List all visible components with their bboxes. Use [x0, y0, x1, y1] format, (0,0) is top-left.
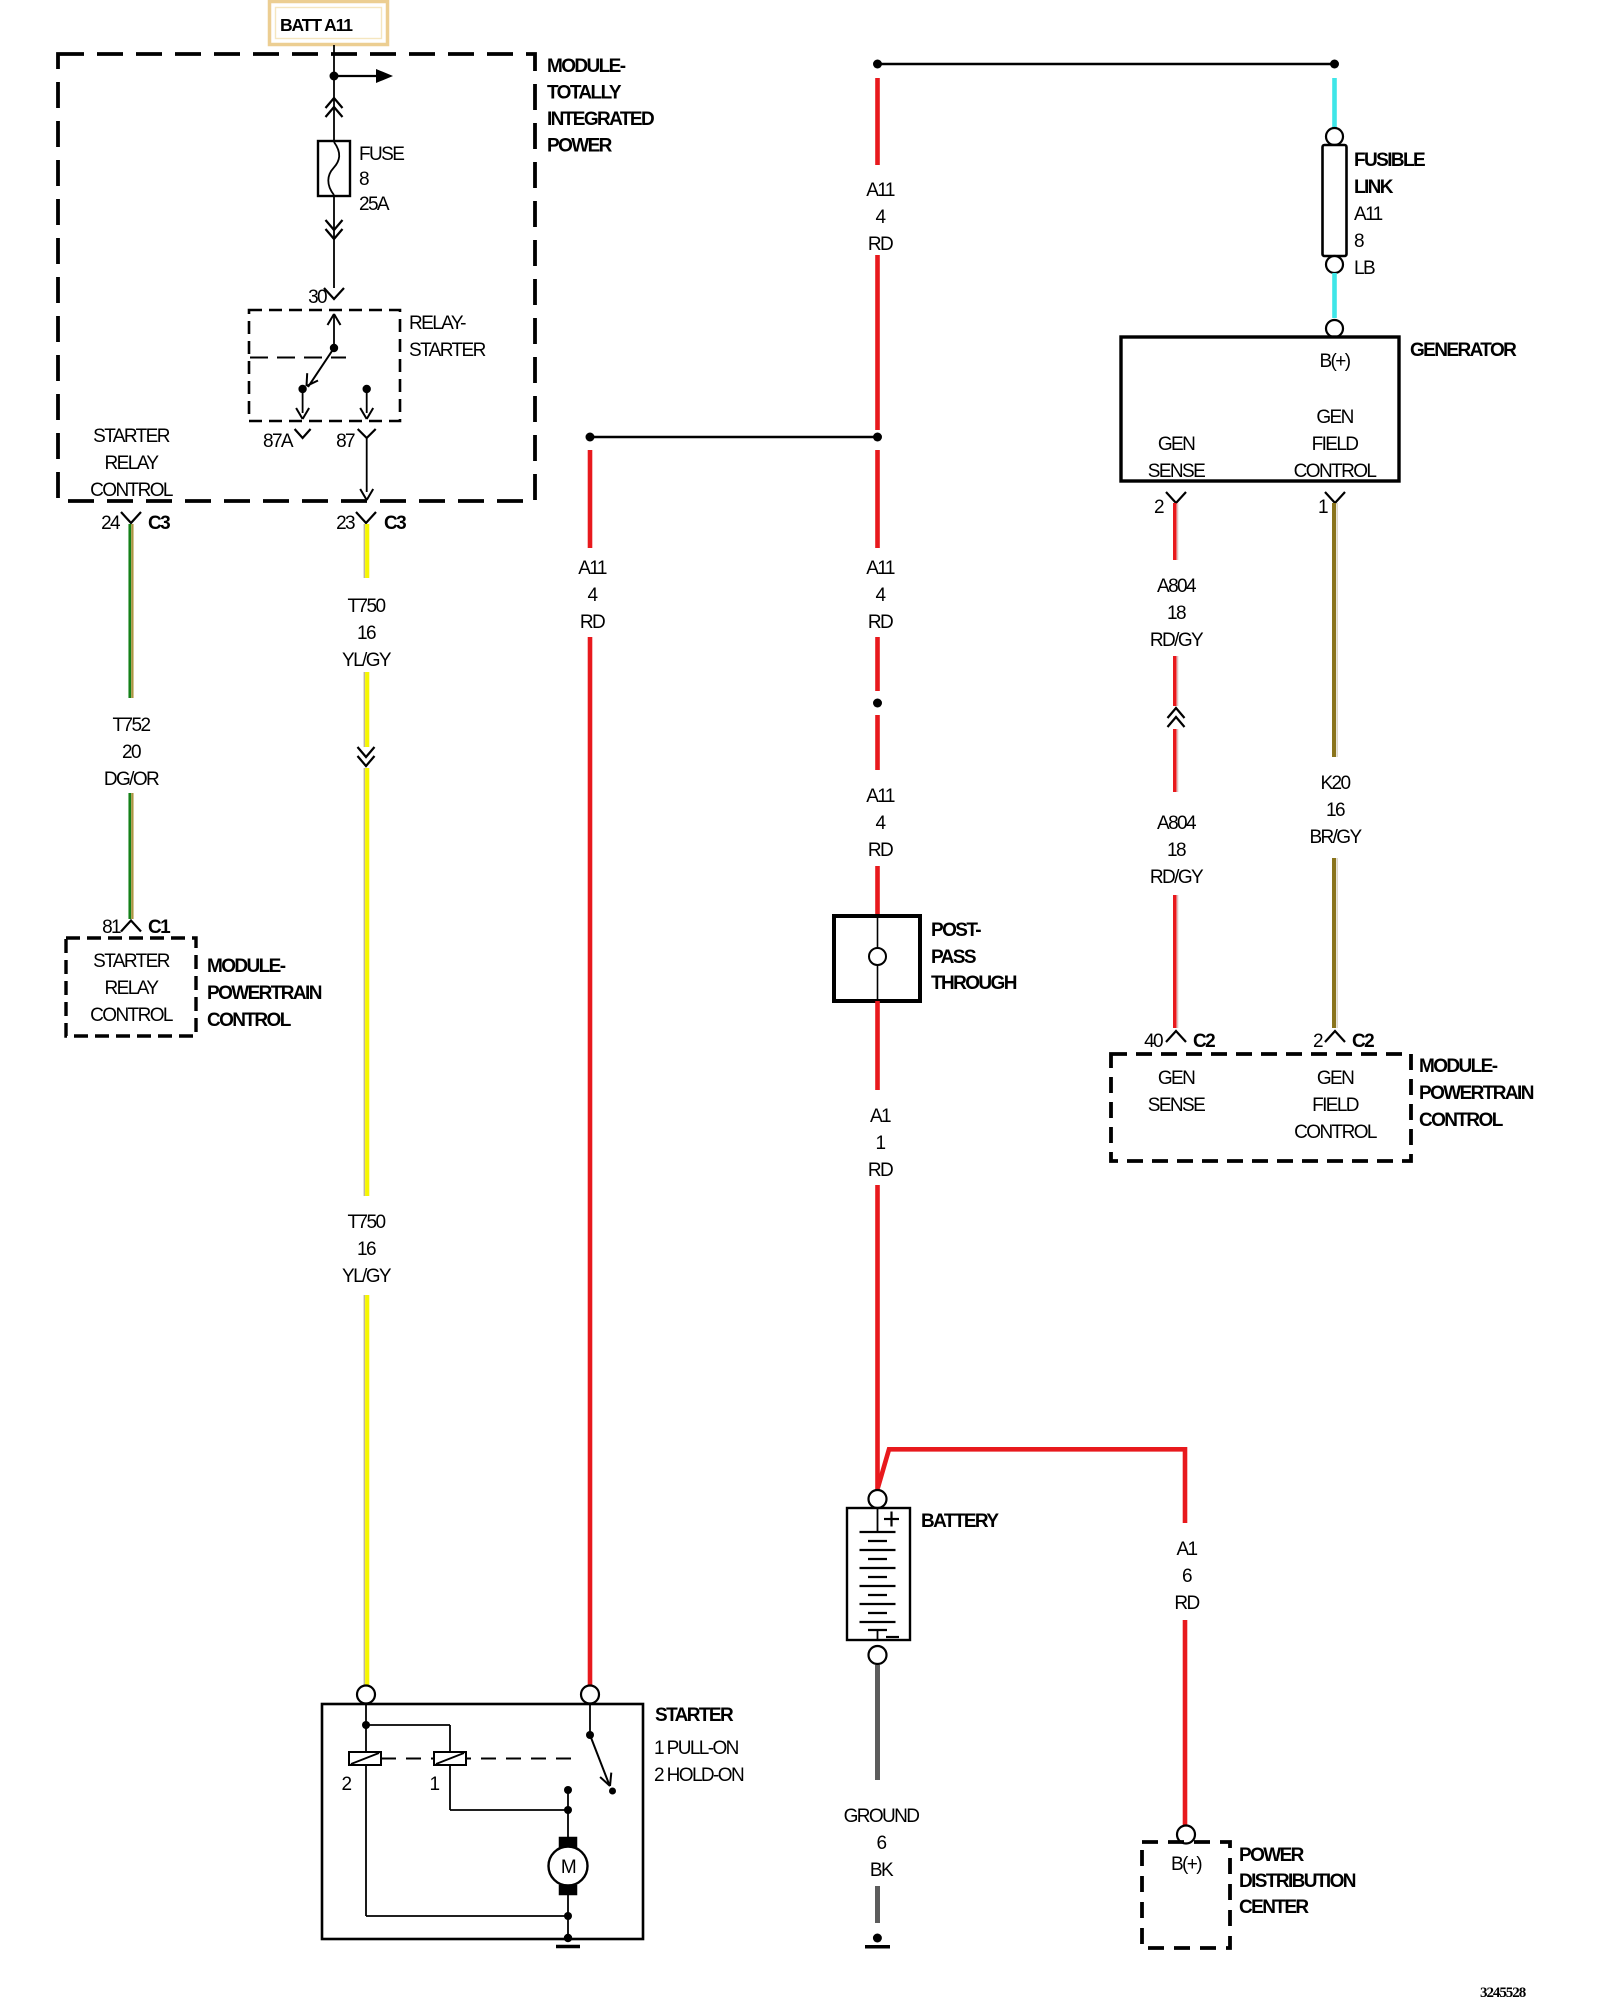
- svg-text:16: 16: [357, 623, 376, 644]
- svg-text:C1: C1: [148, 917, 171, 938]
- svg-text:A11: A11: [866, 558, 895, 579]
- svg-text:20: 20: [122, 742, 141, 763]
- svg-text:STARTER: STARTER: [93, 951, 170, 972]
- svg-text:24: 24: [101, 513, 121, 534]
- svg-text:1: 1: [430, 1774, 440, 1795]
- svg-text:2: 2: [342, 1774, 352, 1795]
- svg-text:YL/GY: YL/GY: [342, 1266, 392, 1287]
- svg-text:GEN: GEN: [1317, 1068, 1354, 1089]
- svg-text:1: 1: [876, 1133, 886, 1154]
- svg-text:C2: C2: [1193, 1031, 1215, 1052]
- svg-text:M: M: [561, 1857, 576, 1878]
- svg-text:RELAY: RELAY: [105, 453, 160, 474]
- svg-text:SENSE: SENSE: [1148, 1095, 1205, 1116]
- svg-text:A11: A11: [1354, 204, 1383, 225]
- svg-text:RD: RD: [868, 612, 893, 633]
- svg-text:RD: RD: [868, 234, 893, 255]
- svg-text:PASS: PASS: [931, 947, 976, 968]
- svg-text:TOTALLY: TOTALLY: [547, 83, 622, 104]
- svg-text:BATT A11: BATT A11: [280, 15, 353, 35]
- svg-text:GEN: GEN: [1316, 407, 1353, 428]
- svg-text:LINK: LINK: [1354, 177, 1394, 198]
- svg-text:YL/GY: YL/GY: [342, 650, 392, 671]
- svg-text:2 HOLD-ON: 2 HOLD-ON: [654, 1765, 744, 1786]
- svg-text:CONTROL: CONTROL: [90, 1005, 173, 1026]
- svg-text:FUSE: FUSE: [359, 144, 404, 165]
- svg-text:A11: A11: [866, 786, 895, 807]
- svg-text:BATTERY: BATTERY: [921, 1511, 999, 1532]
- svg-text:2: 2: [1313, 1031, 1323, 1052]
- svg-text:A804: A804: [1157, 813, 1197, 834]
- svg-text:8: 8: [1354, 231, 1364, 252]
- svg-text:STARTER: STARTER: [655, 1705, 734, 1726]
- svg-text:STARTER: STARTER: [409, 340, 486, 361]
- svg-text:FIELD: FIELD: [1312, 1095, 1359, 1116]
- svg-text:GEN: GEN: [1158, 434, 1195, 455]
- svg-text:DG/OR: DG/OR: [104, 769, 159, 790]
- svg-text:BK: BK: [870, 1860, 894, 1881]
- svg-text:2: 2: [1154, 497, 1164, 518]
- svg-text:GENERATOR: GENERATOR: [1410, 340, 1517, 361]
- svg-text:MODULE-: MODULE-: [547, 56, 626, 77]
- svg-text:FIELD: FIELD: [1312, 434, 1359, 455]
- svg-text:CONTROL: CONTROL: [1294, 1122, 1377, 1143]
- svg-text:30: 30: [308, 287, 327, 308]
- svg-text:A11: A11: [578, 558, 607, 579]
- svg-text:GEN: GEN: [1158, 1068, 1195, 1089]
- svg-text:A1: A1: [870, 1106, 891, 1127]
- svg-text:A1: A1: [1176, 1539, 1197, 1560]
- svg-text:8: 8: [359, 169, 369, 190]
- svg-text:6: 6: [877, 1833, 887, 1854]
- svg-text:CENTER: CENTER: [1239, 1897, 1309, 1918]
- svg-text:CONTROL: CONTROL: [1294, 461, 1377, 482]
- svg-text:B(+): B(+): [1171, 1854, 1202, 1875]
- svg-text:POST-: POST-: [931, 920, 981, 941]
- svg-text:T750: T750: [348, 596, 386, 617]
- svg-text:40: 40: [1144, 1031, 1163, 1052]
- svg-text:25A: 25A: [359, 194, 390, 215]
- svg-text:18: 18: [1167, 840, 1186, 861]
- svg-text:RD: RD: [580, 612, 605, 633]
- svg-text:16: 16: [1326, 800, 1345, 821]
- svg-text:A804: A804: [1157, 576, 1197, 597]
- svg-text:GROUND: GROUND: [844, 1806, 920, 1827]
- svg-text:POWERTRAIN: POWERTRAIN: [207, 983, 322, 1004]
- svg-text:B(+): B(+): [1319, 351, 1350, 372]
- svg-text:CONTROL: CONTROL: [207, 1010, 292, 1031]
- svg-text:MODULE-: MODULE-: [207, 956, 286, 977]
- svg-text:3245528: 3245528: [1480, 1985, 1526, 2000]
- svg-text:RD: RD: [868, 1160, 893, 1181]
- svg-text:RD: RD: [868, 840, 893, 861]
- svg-text:THROUGH: THROUGH: [931, 973, 1017, 994]
- svg-text:87: 87: [336, 431, 355, 452]
- svg-text:23: 23: [336, 513, 355, 534]
- svg-text:CONTROL: CONTROL: [90, 480, 173, 501]
- svg-text:RELAY: RELAY: [105, 978, 160, 999]
- svg-text:RELAY-: RELAY-: [409, 313, 466, 334]
- svg-text:16: 16: [357, 1239, 376, 1260]
- svg-text:RD: RD: [1174, 1593, 1199, 1614]
- svg-text:T750: T750: [348, 1212, 386, 1233]
- svg-text:T752: T752: [113, 715, 151, 736]
- svg-text:87A: 87A: [263, 431, 294, 452]
- svg-text:1: 1: [1318, 497, 1328, 518]
- svg-text:BR/GY: BR/GY: [1309, 827, 1362, 848]
- svg-text:INTEGRATED: INTEGRATED: [547, 109, 654, 130]
- svg-text:RD/GY: RD/GY: [1150, 867, 1204, 888]
- svg-text:RD/GY: RD/GY: [1150, 630, 1204, 651]
- svg-text:6: 6: [1182, 1566, 1192, 1587]
- svg-text:18: 18: [1167, 603, 1186, 624]
- svg-text:CONTROL: CONTROL: [1419, 1110, 1504, 1131]
- svg-text:LB: LB: [1354, 258, 1375, 279]
- svg-text:FUSIBLE: FUSIBLE: [1354, 150, 1425, 171]
- svg-text:POWER: POWER: [1239, 1845, 1305, 1866]
- svg-text:MODULE-: MODULE-: [1419, 1056, 1498, 1077]
- svg-text:STARTER: STARTER: [93, 426, 170, 447]
- svg-text:81: 81: [102, 917, 121, 938]
- svg-text:POWERTRAIN: POWERTRAIN: [1419, 1083, 1534, 1104]
- svg-text:DISTRIBUTION: DISTRIBUTION: [1239, 1871, 1356, 1892]
- svg-text:C3: C3: [148, 513, 170, 534]
- svg-text:SENSE: SENSE: [1148, 461, 1205, 482]
- svg-text:A11: A11: [866, 180, 895, 201]
- svg-text:1 PULL-ON: 1 PULL-ON: [654, 1738, 739, 1759]
- svg-text:K20: K20: [1320, 773, 1350, 794]
- svg-text:C3: C3: [384, 513, 406, 534]
- svg-text:C2: C2: [1352, 1031, 1374, 1052]
- svg-text:POWER: POWER: [547, 136, 613, 157]
